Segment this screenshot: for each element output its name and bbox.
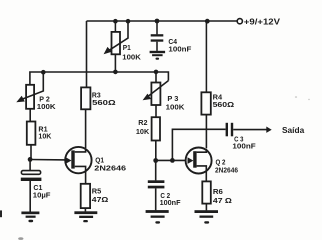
- label R3 value: [92, 91, 116, 108]
- svg-text:P1: P1: [123, 43, 132, 52]
- svg-text:2N2646: 2N2646: [215, 165, 238, 174]
- svg-text:10K: 10K: [38, 132, 51, 141]
- node dot A-P1 bottom: [113, 70, 118, 75]
- ground (C4): [150, 51, 166, 60]
- wire R3 bottom to Q1 base-2: [85, 109, 87, 148]
- svg-text:+9/+12V: +9/+12V: [244, 16, 281, 26]
- label R6 value: [213, 187, 232, 205]
- resistor R1: [27, 122, 36, 160]
- wire Q1 emitter node: [30, 159, 67, 161]
- output arrow Saída: [266, 127, 271, 133]
- capacitor C1 (electrolytic): [21, 159, 42, 211]
- label C2 value: [160, 191, 181, 207]
- scan artifact bottom smudge: [18, 237, 23, 240]
- potentiometer P2: [16, 72, 43, 121]
- svg-text:100nF: 100nF: [232, 142, 256, 151]
- node dot Q1 emitter-R1-C1: [28, 157, 33, 162]
- potentiometer P3: [143, 72, 169, 117]
- label Q1 type: [94, 155, 126, 172]
- label P2 value: [37, 94, 56, 111]
- node dot A-P3 top: [154, 70, 159, 75]
- wire output tap from Q2 emitter node up to coupling cap: [172, 129, 225, 160]
- supply terminal +9/+12V: [237, 19, 242, 24]
- label R5 value: [92, 186, 109, 203]
- ground (C2): [146, 210, 169, 223]
- ground (C1): [21, 212, 39, 223]
- label Q2 type: [215, 157, 238, 174]
- transistor Q1 2N2646: [65, 147, 91, 184]
- node dot rail-R4: [205, 19, 210, 24]
- wire B2 chain: rail corner down to R3 top (crosses node-A wire, no junction): [86, 21, 88, 88]
- node dot rail-P1 top: [113, 19, 118, 24]
- resistor R3: [81, 87, 90, 109]
- potentiometer P1: [104, 21, 128, 72]
- label C1 value: [33, 183, 51, 200]
- label C4 value: [168, 37, 191, 53]
- svg-text:R2: R2: [138, 118, 147, 127]
- svg-text:10µF: 10µF: [33, 191, 51, 200]
- svg-text:560Ω: 560Ω: [213, 100, 235, 109]
- capacitor C4: [151, 21, 164, 51]
- scan artifact left edge: [0, 210, 2, 217]
- capacitor C3: [226, 123, 267, 137]
- resistor R6: [202, 181, 211, 210]
- svg-text:560Ω: 560Ω: [92, 98, 116, 107]
- resistor R5: [81, 184, 90, 212]
- label P3 value: [166, 94, 185, 111]
- scan speck right: [295, 96, 297, 98]
- svg-text:Saída: Saída: [282, 126, 305, 135]
- svg-text:100K: 100K: [166, 102, 185, 111]
- svg-text:2N2646: 2N2646: [94, 164, 126, 173]
- ground (R6): [195, 210, 219, 223]
- label P1 value: [122, 43, 141, 61]
- label R4 value: [213, 93, 235, 109]
- capacitor C2: [148, 160, 165, 210]
- svg-text:R6: R6: [213, 187, 223, 196]
- label R2 value: [136, 118, 150, 136]
- node dot rail-P1 wiper: [126, 19, 131, 24]
- node dot Q2 emitter-R2-C2: [153, 158, 158, 163]
- svg-text:47 Ω: 47 Ω: [213, 196, 232, 205]
- label C3 value: [232, 134, 256, 150]
- svg-text:47Ω: 47Ω: [92, 195, 109, 204]
- wire top +V rail: [87, 20, 238, 22]
- label Saída: [282, 126, 305, 135]
- node dot output tap: [170, 158, 175, 163]
- node dot rail-C4: [155, 19, 160, 24]
- svg-text:100nF: 100nF: [168, 44, 191, 53]
- svg-text:100K: 100K: [122, 52, 141, 61]
- ground (R5): [74, 211, 97, 222]
- label R1 value: [38, 125, 51, 141]
- transistor Q2 2N2646: [156, 148, 212, 182]
- resistor R2: [152, 117, 160, 160]
- svg-text:10K: 10K: [136, 127, 150, 136]
- wire node A horizontal (P2/P1/P3 common) with corners: [30, 72, 169, 85]
- label +9/+12V: [244, 16, 281, 26]
- node dot A-P2 wiper: [41, 70, 46, 75]
- svg-text:100K: 100K: [37, 102, 56, 111]
- resistor R4: [201, 21, 210, 148]
- svg-text:100nF: 100nF: [160, 198, 181, 207]
